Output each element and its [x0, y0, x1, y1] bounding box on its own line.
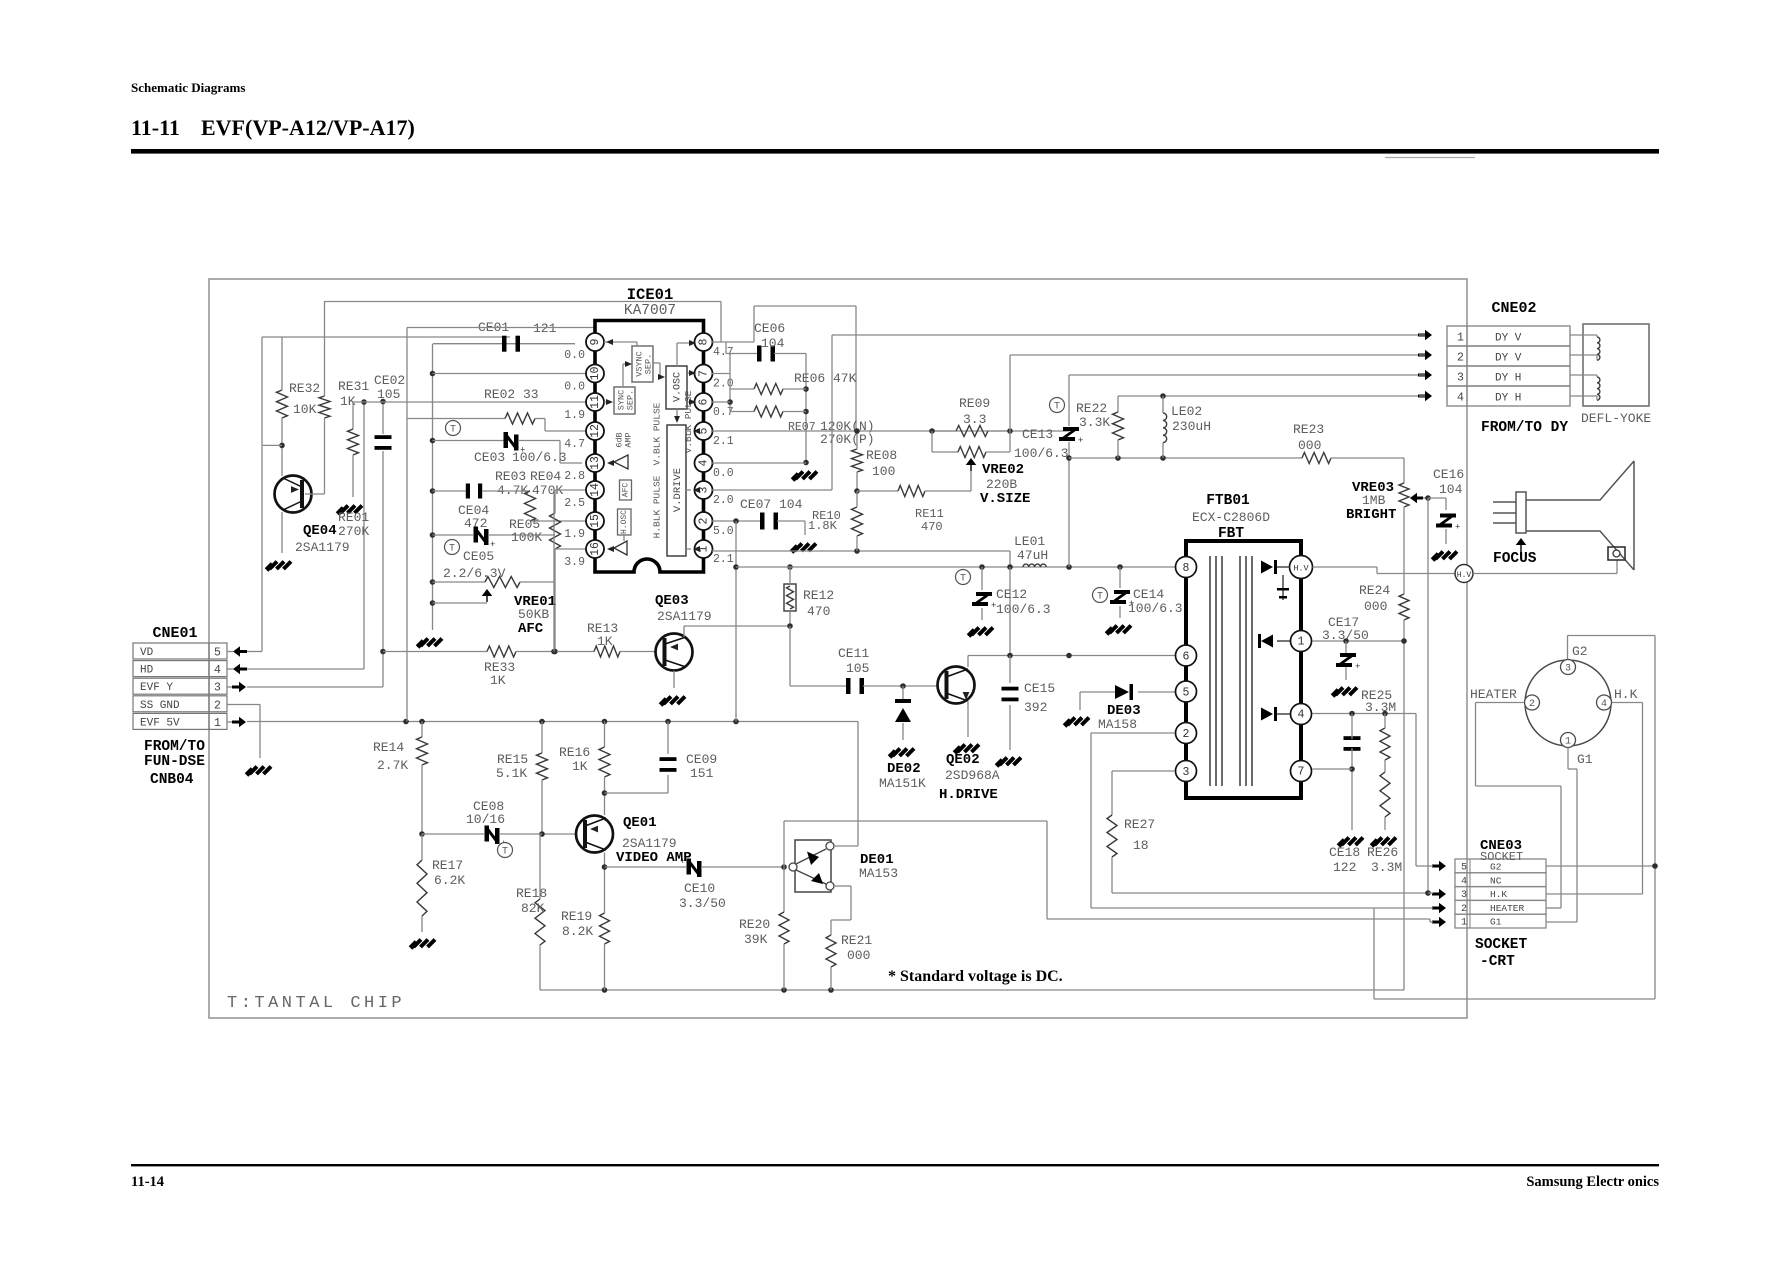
svg-text:13: 13 [589, 456, 602, 470]
svg-text:3.3K: 3.3K [1079, 415, 1110, 430]
svg-text:-CRT: -CRT [1480, 954, 1515, 970]
svg-text:H.V: H.V [1293, 564, 1309, 574]
svg-text:G2: G2 [1572, 644, 1588, 659]
svg-text:RE07: RE07 [788, 421, 816, 434]
svg-text:3: 3 [1457, 372, 1464, 385]
svg-text:QE02: QE02 [946, 752, 980, 768]
svg-text:DY V: DY V [1495, 333, 1522, 345]
svg-text:1.8K: 1.8K [808, 519, 838, 533]
svg-text:DY H: DY H [1495, 393, 1521, 405]
svg-text:121: 121 [533, 321, 557, 336]
svg-text:QE01: QE01 [623, 815, 657, 831]
svg-text:2: 2 [698, 517, 711, 524]
svg-text:EVF Y: EVF Y [140, 682, 173, 694]
svg-text:VRE02: VRE02 [982, 462, 1024, 478]
svg-text:CE07 104: CE07 104 [740, 497, 803, 512]
svg-text:RE01: RE01 [338, 510, 369, 525]
svg-text:11-11: 11-11 [131, 115, 180, 140]
svg-text:14: 14 [589, 483, 602, 497]
svg-text:AFC: AFC [518, 621, 544, 637]
svg-text:Samsung Electr onics: Samsung Electr onics [1526, 1174, 1659, 1190]
svg-text:RE22: RE22 [1076, 401, 1107, 416]
svg-text:NC: NC [1490, 875, 1502, 886]
svg-text:2: 2 [1183, 728, 1190, 741]
svg-text:000: 000 [1364, 599, 1387, 614]
svg-text:RE19: RE19 [561, 909, 592, 924]
svg-text:16: 16 [589, 542, 602, 556]
svg-text:3.3: 3.3 [963, 412, 986, 427]
svg-text:2: 2 [214, 699, 221, 712]
svg-text:CE10: CE10 [684, 881, 715, 896]
svg-text:VD: VD [140, 647, 154, 659]
svg-text:3: 3 [214, 682, 221, 695]
svg-text:104: 104 [761, 336, 785, 351]
svg-text:230uH: 230uH [1172, 419, 1211, 434]
svg-text:2SA1179: 2SA1179 [657, 609, 712, 624]
svg-text:H.DRIVE: H.DRIVE [939, 787, 998, 803]
svg-text:50KB: 50KB [518, 607, 549, 622]
svg-text:CE05: CE05 [463, 549, 494, 564]
svg-text:MA158: MA158 [1098, 717, 1137, 732]
svg-text:11-14: 11-14 [131, 1174, 164, 1190]
svg-text:RE18: RE18 [516, 886, 547, 901]
svg-text:6: 6 [1183, 651, 1190, 664]
svg-text:100K: 100K [511, 530, 542, 545]
svg-text:2.1: 2.1 [713, 553, 734, 566]
svg-text:MA153: MA153 [859, 866, 898, 881]
svg-text:CE09: CE09 [686, 752, 717, 767]
svg-text:V.BLK PULSE: V.BLK PULSE [652, 402, 663, 465]
svg-text:000: 000 [1298, 438, 1321, 453]
svg-text:2: 2 [1457, 352, 1464, 365]
svg-text:4: 4 [1298, 709, 1305, 722]
svg-text:FROM/TO DY: FROM/TO DY [1481, 420, 1568, 436]
svg-text:CE02: CE02 [374, 373, 405, 388]
svg-text:CNE01: CNE01 [152, 625, 197, 642]
svg-text:H.OSC: H.OSC [620, 510, 629, 534]
svg-text:47uH: 47uH [1017, 548, 1048, 563]
svg-text:11: 11 [589, 395, 602, 409]
svg-text:1: 1 [1565, 737, 1571, 748]
svg-text:HD: HD [140, 665, 154, 677]
svg-text:3.9: 3.9 [564, 556, 585, 569]
svg-text:1.9: 1.9 [564, 409, 585, 422]
svg-text:3.3/50: 3.3/50 [679, 896, 726, 911]
svg-text:270K(P): 270K(P) [820, 432, 875, 447]
svg-text:9: 9 [589, 338, 602, 345]
svg-text:1MB: 1MB [1362, 493, 1386, 508]
svg-text:82K: 82K [521, 901, 545, 916]
svg-text:DE02: DE02 [887, 761, 921, 777]
svg-text:DY H: DY H [1495, 373, 1521, 385]
svg-text:5: 5 [1461, 863, 1467, 874]
svg-text:6.2K: 6.2K [434, 873, 465, 888]
svg-text:CNB04: CNB04 [150, 772, 194, 788]
svg-text:G1: G1 [1490, 917, 1502, 928]
svg-text:3: 3 [1183, 766, 1190, 779]
svg-text:1.9: 1.9 [564, 528, 585, 541]
svg-text:DEFL-YOKE: DEFL-YOKE [1581, 411, 1651, 426]
svg-text:470: 470 [807, 604, 830, 619]
svg-text:CE16: CE16 [1433, 467, 1464, 482]
svg-text:RE32: RE32 [289, 381, 320, 396]
svg-text:10: 10 [589, 367, 602, 381]
svg-text:+: + [1355, 662, 1360, 672]
svg-text:G1: G1 [1577, 752, 1593, 767]
svg-text:18: 18 [1133, 838, 1149, 853]
svg-text:5.1K: 5.1K [496, 766, 527, 781]
svg-text:RE16: RE16 [559, 745, 590, 760]
svg-text:V.SIZE: V.SIZE [980, 491, 1030, 507]
svg-text:+: + [1455, 523, 1460, 533]
svg-text:H.BLK PULSE: H.BLK PULSE [652, 475, 663, 538]
svg-text:7: 7 [698, 370, 711, 377]
svg-text:KA7007: KA7007 [624, 303, 676, 319]
svg-text:2.5: 2.5 [564, 497, 585, 510]
svg-text:10/16: 10/16 [466, 812, 505, 827]
svg-text:CE12: CE12 [996, 587, 1027, 602]
svg-text:EVF 5V: EVF 5V [140, 717, 180, 729]
svg-text:2SA1179: 2SA1179 [295, 540, 350, 555]
svg-text:105: 105 [846, 661, 869, 676]
svg-text:151: 151 [690, 766, 714, 781]
svg-text:1: 1 [1457, 332, 1464, 345]
svg-text:SEP.: SEP. [625, 390, 635, 410]
svg-text:RE08: RE08 [866, 448, 897, 463]
svg-text:2SD968A: 2SD968A [945, 768, 1000, 783]
svg-text:Standard voltage is DC.: Standard voltage is DC. [900, 968, 1063, 985]
svg-text:100: 100 [872, 464, 895, 479]
svg-text:8: 8 [1183, 562, 1190, 575]
svg-text:470: 470 [921, 520, 943, 534]
svg-text:100/6.3: 100/6.3 [1128, 601, 1183, 616]
svg-text:T: T [1054, 402, 1060, 413]
svg-text:RE02 33: RE02 33 [484, 387, 539, 402]
svg-text:T: T [450, 425, 456, 436]
svg-text:FROM/TO: FROM/TO [144, 739, 205, 755]
svg-text:HEATER: HEATER [1490, 903, 1525, 914]
svg-text:+: + [1078, 436, 1083, 446]
svg-text:000: 000 [847, 948, 870, 963]
svg-text:8: 8 [698, 338, 711, 345]
svg-text:RE14: RE14 [373, 740, 404, 755]
svg-text:RE20: RE20 [739, 917, 770, 932]
svg-text:SOCKET: SOCKET [1475, 937, 1528, 953]
svg-text:T: T [960, 574, 966, 585]
svg-text:2.8: 2.8 [564, 470, 585, 483]
svg-text:T: T [1097, 592, 1103, 603]
svg-text:4: 4 [1457, 392, 1464, 405]
svg-text:12: 12 [589, 424, 602, 438]
svg-text:3: 3 [1461, 890, 1467, 901]
svg-text:H.V: H.V [1457, 571, 1472, 580]
svg-text:10K: 10K [293, 402, 317, 417]
svg-text:FBT: FBT [1218, 526, 1244, 542]
svg-text:RE03: RE03 [495, 469, 526, 484]
svg-text:1: 1 [1461, 918, 1467, 929]
svg-text:V.DRIVE: V.DRIVE [672, 468, 684, 512]
svg-text:RE27: RE27 [1124, 817, 1155, 832]
svg-text:3.3/50: 3.3/50 [1322, 628, 1369, 643]
svg-text:FTB01: FTB01 [1206, 493, 1250, 509]
svg-text:0.0: 0.0 [713, 467, 734, 480]
svg-text:HEATER: HEATER [1470, 687, 1517, 702]
svg-text:2.1: 2.1 [713, 435, 734, 448]
svg-text:RE24: RE24 [1359, 583, 1390, 598]
svg-text:270K: 270K [338, 524, 369, 539]
svg-text:100/6.3: 100/6.3 [512, 450, 567, 465]
svg-text:100/6.3: 100/6.3 [1014, 446, 1069, 461]
svg-text:T: T [502, 847, 508, 858]
svg-text:DY V: DY V [1495, 353, 1522, 365]
svg-text:4: 4 [1601, 699, 1607, 710]
svg-text:0.0: 0.0 [564, 349, 585, 362]
svg-text:QE04: QE04 [303, 523, 337, 539]
svg-text:105: 105 [377, 387, 400, 402]
svg-text:RE06 47K: RE06 47K [794, 371, 857, 386]
svg-text:3.3M: 3.3M [1371, 860, 1402, 875]
svg-text:CE15: CE15 [1024, 681, 1055, 696]
svg-text:QE03: QE03 [655, 593, 689, 609]
svg-text:2SA1179: 2SA1179 [622, 836, 677, 851]
svg-text:RE17: RE17 [432, 858, 463, 873]
svg-text:CE06: CE06 [754, 321, 785, 336]
svg-text:100/6.3: 100/6.3 [996, 602, 1051, 617]
svg-text:CNE02: CNE02 [1491, 300, 1536, 317]
svg-text:H.K: H.K [1614, 687, 1638, 702]
svg-text:CE11: CE11 [838, 646, 869, 661]
svg-text:SEP.: SEP. [643, 354, 653, 374]
svg-text:2: 2 [1529, 699, 1535, 710]
svg-text:RE21: RE21 [841, 933, 872, 948]
svg-text:4.7: 4.7 [564, 438, 585, 451]
svg-text:MA151K: MA151K [879, 776, 926, 791]
svg-text:220B: 220B [986, 477, 1017, 492]
svg-text:2.2/6.3V: 2.2/6.3V [443, 566, 506, 581]
svg-text:2.0: 2.0 [713, 494, 734, 507]
svg-text:0.0: 0.0 [564, 381, 585, 394]
svg-text:RE11: RE11 [915, 507, 944, 521]
svg-text:3.3M: 3.3M [1365, 700, 1396, 715]
svg-text:1K: 1K [572, 759, 588, 774]
svg-text:1: 1 [1298, 636, 1305, 649]
svg-text:5.0: 5.0 [713, 525, 734, 538]
svg-text:V.OSC: V.OSC [673, 372, 684, 402]
svg-text:FUN-DSE: FUN-DSE [144, 754, 205, 770]
svg-text:EVF(VP-A12/VP-A17): EVF(VP-A12/VP-A17) [201, 115, 415, 140]
svg-text:AMP: AMP [623, 432, 633, 447]
svg-text:RE15: RE15 [497, 752, 528, 767]
svg-text:5: 5 [214, 647, 221, 660]
svg-text:6: 6 [698, 398, 711, 405]
svg-text:1K: 1K [597, 634, 613, 649]
svg-text:1: 1 [214, 717, 221, 730]
svg-text:RE31: RE31 [338, 379, 369, 394]
svg-text:15: 15 [589, 514, 602, 528]
svg-text:7: 7 [1298, 766, 1305, 779]
svg-text:T:TANTAL CHIP: T:TANTAL CHIP [227, 994, 405, 1013]
svg-text:+: + [680, 857, 685, 867]
svg-text:2.7K: 2.7K [377, 758, 408, 773]
svg-text:4: 4 [214, 664, 221, 677]
svg-text:SOCKET: SOCKET [1480, 850, 1523, 864]
svg-text:5: 5 [1183, 687, 1190, 700]
svg-text:LE01: LE01 [1014, 534, 1045, 549]
svg-text:RE23: RE23 [1293, 422, 1324, 437]
svg-text:4: 4 [1461, 876, 1467, 887]
svg-text:122: 122 [1333, 860, 1356, 875]
svg-text:H.K: H.K [1490, 889, 1507, 900]
svg-text:ICE01: ICE01 [627, 286, 674, 304]
svg-text:RE04: RE04 [530, 469, 561, 484]
svg-text:104: 104 [1439, 482, 1463, 497]
svg-text:T: T [449, 544, 455, 555]
svg-text:LE02: LE02 [1171, 404, 1202, 419]
svg-text:CE18: CE18 [1329, 845, 1360, 860]
svg-text:CE03: CE03 [474, 450, 505, 465]
svg-text:392: 392 [1024, 700, 1047, 715]
svg-text:CE14: CE14 [1133, 587, 1164, 602]
svg-text:3: 3 [1565, 664, 1571, 675]
svg-text:2: 2 [1461, 904, 1467, 915]
svg-text:RE09: RE09 [959, 396, 990, 411]
svg-text:*: * [888, 968, 896, 985]
svg-text:FOCUS: FOCUS [1493, 551, 1537, 567]
svg-text:CE13: CE13 [1022, 427, 1053, 442]
svg-text:RE26: RE26 [1367, 845, 1398, 860]
svg-text:39K: 39K [744, 932, 768, 947]
svg-text:V.BLK PULSE: V.BLK PULSE [683, 390, 694, 453]
svg-text:Schematic Diagrams: Schematic Diagrams [131, 80, 245, 95]
svg-text:8.2K: 8.2K [562, 924, 593, 939]
svg-text:4: 4 [698, 459, 711, 466]
svg-text:SS GND: SS GND [140, 700, 180, 712]
svg-text:1K: 1K [490, 673, 506, 688]
svg-text:BRIGHT: BRIGHT [1346, 507, 1396, 523]
svg-text:ECX-C2806D: ECX-C2806D [1192, 510, 1270, 525]
svg-text:RE12: RE12 [803, 588, 834, 603]
svg-text:AFC: AFC [622, 483, 631, 498]
